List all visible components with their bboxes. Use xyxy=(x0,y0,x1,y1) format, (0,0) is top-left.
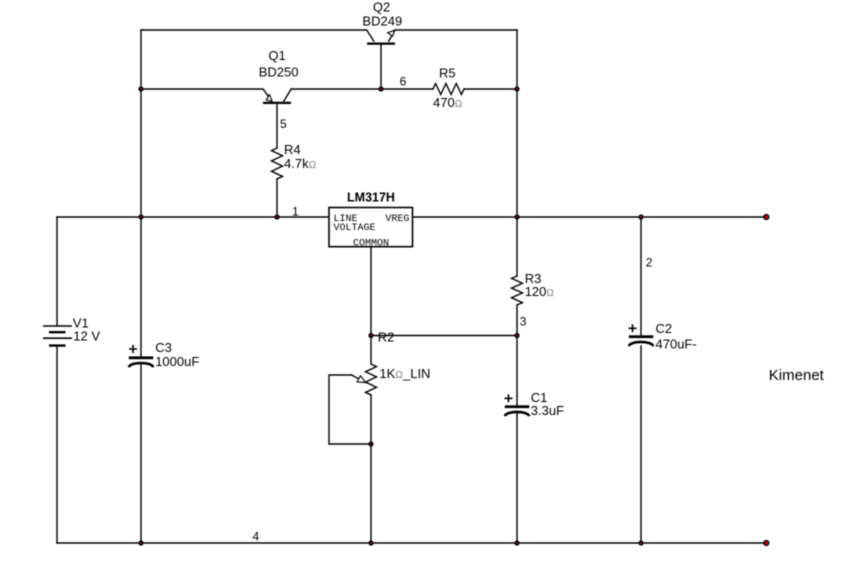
svg-text:COMMON: COMMON xyxy=(353,238,389,249)
svg-text:470uF-: 470uF- xyxy=(656,336,697,351)
svg-text:3: 3 xyxy=(520,315,527,329)
svg-text:1KΩ_LIN: 1KΩ_LIN xyxy=(379,366,430,381)
svg-text:5: 5 xyxy=(280,117,287,131)
svg-text:BD249: BD249 xyxy=(362,14,402,29)
svg-text:3.3uF: 3.3uF xyxy=(531,403,564,418)
svg-text:4: 4 xyxy=(253,530,260,544)
svg-text:Q1: Q1 xyxy=(268,48,285,63)
svg-text:BD250: BD250 xyxy=(259,65,299,80)
svg-text:1000uF: 1000uF xyxy=(155,354,199,369)
svg-text:6: 6 xyxy=(400,75,407,89)
svg-text:VREG: VREG xyxy=(385,214,409,225)
svg-text:Q2: Q2 xyxy=(373,0,390,14)
svg-text:LM317H: LM317H xyxy=(347,191,395,205)
svg-text:Kimenet: Kimenet xyxy=(769,367,825,384)
svg-text:R2: R2 xyxy=(378,330,395,345)
svg-text:C2: C2 xyxy=(656,321,673,336)
svg-text:1: 1 xyxy=(292,204,299,218)
svg-text:R4: R4 xyxy=(284,142,301,157)
svg-text:12 V: 12 V xyxy=(73,328,100,343)
svg-text:R5: R5 xyxy=(439,66,456,81)
svg-text:2: 2 xyxy=(646,255,653,269)
svg-text:C3: C3 xyxy=(155,340,172,355)
svg-text:VOLTAGE: VOLTAGE xyxy=(334,223,376,234)
